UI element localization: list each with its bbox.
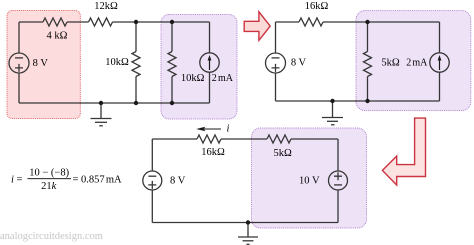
svg-text:10kΩ: 10kΩ xyxy=(181,73,205,84)
svg-text:= 0.857mA: = 0.857mA xyxy=(73,174,123,185)
svg-text:2mA: 2mA xyxy=(212,73,234,84)
svg-text:12kΩ: 12kΩ xyxy=(94,1,118,12)
svg-text:10kΩ: 10kΩ xyxy=(105,57,129,68)
svg-text:5kΩ: 5kΩ xyxy=(381,58,400,69)
svg-text:16kΩ: 16kΩ xyxy=(201,147,225,158)
svg-text:8 V: 8 V xyxy=(291,58,307,69)
svg-text:2mA: 2mA xyxy=(406,58,428,69)
svg-text:21k: 21k xyxy=(41,181,57,192)
svg-text:i: i xyxy=(227,123,230,134)
svg-text:8 V: 8 V xyxy=(170,176,186,187)
svg-text:16kΩ: 16kΩ xyxy=(305,1,329,12)
svg-text:10 V: 10 V xyxy=(299,176,320,187)
svg-text:10 − (−8): 10 − (−8) xyxy=(29,168,69,179)
svg-text:analogcircuitdesign.com: analogcircuitdesign.com xyxy=(0,231,103,242)
svg-text:8 V: 8 V xyxy=(33,58,49,69)
svg-text:4 kΩ: 4 kΩ xyxy=(47,30,68,41)
svg-text:5kΩ: 5kΩ xyxy=(274,148,293,159)
svg-text:i =: i = xyxy=(11,174,23,185)
